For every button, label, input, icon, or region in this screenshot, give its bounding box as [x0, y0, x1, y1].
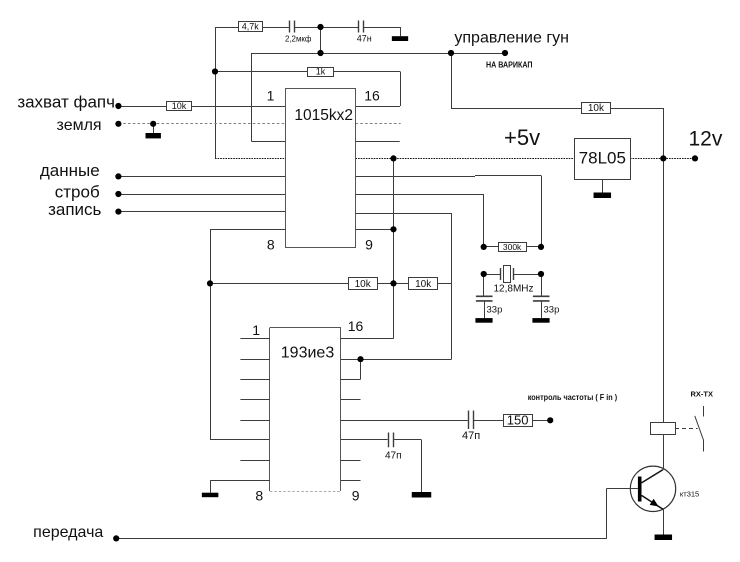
- svg-text:33p: 33p: [544, 304, 560, 315]
- svg-text:+5v: +5v: [504, 125, 540, 150]
- svg-text:47н: 47н: [357, 34, 372, 44]
- svg-text:78L05: 78L05: [579, 149, 626, 168]
- svg-text:1k: 1k: [316, 67, 326, 77]
- svg-text:193ие3: 193ие3: [281, 345, 335, 362]
- svg-text:контроль частоты ( F in ): контроль частоты ( F in ): [528, 392, 618, 402]
- svg-text:150: 150: [507, 413, 529, 428]
- svg-text:2,2мкф: 2,2мкф: [285, 34, 312, 43]
- svg-text:12,8MHz: 12,8MHz: [493, 284, 533, 295]
- svg-text:передача: передача: [33, 524, 103, 541]
- svg-text:8: 8: [255, 487, 263, 503]
- svg-text:управление гун: управление гун: [454, 30, 569, 47]
- svg-text:16: 16: [364, 88, 380, 104]
- svg-text:47п: 47п: [385, 451, 402, 462]
- svg-text:НА ВАРИКАП: НА ВАРИКАП: [486, 60, 533, 69]
- svg-text:земля: земля: [57, 117, 102, 134]
- svg-text:9: 9: [365, 237, 373, 253]
- svg-text:300k: 300k: [503, 242, 522, 252]
- svg-text:10k: 10k: [588, 103, 605, 114]
- svg-text:10k: 10k: [415, 279, 432, 290]
- svg-text:запись: запись: [48, 200, 101, 219]
- svg-text:1015kx2: 1015kx2: [294, 107, 353, 124]
- svg-text:16: 16: [348, 318, 364, 334]
- svg-text:33p: 33p: [487, 304, 503, 315]
- svg-text:4,7k: 4,7k: [242, 22, 260, 32]
- svg-text:RX-TX: RX-TX: [691, 389, 714, 398]
- svg-text:захват фапч: захват фапч: [17, 93, 115, 112]
- svg-text:9: 9: [352, 487, 360, 503]
- svg-text:10k: 10k: [355, 279, 372, 290]
- svg-text:47п: 47п: [462, 430, 480, 442]
- svg-text:8: 8: [267, 237, 275, 253]
- svg-text:12v: 12v: [689, 127, 723, 150]
- svg-text:данные: данные: [40, 161, 100, 180]
- svg-text:1: 1: [267, 88, 275, 104]
- svg-text:1: 1: [252, 322, 260, 338]
- svg-text:строб: строб: [55, 182, 100, 201]
- svg-text:кт315: кт315: [680, 489, 699, 498]
- svg-text:10k: 10k: [172, 101, 187, 111]
